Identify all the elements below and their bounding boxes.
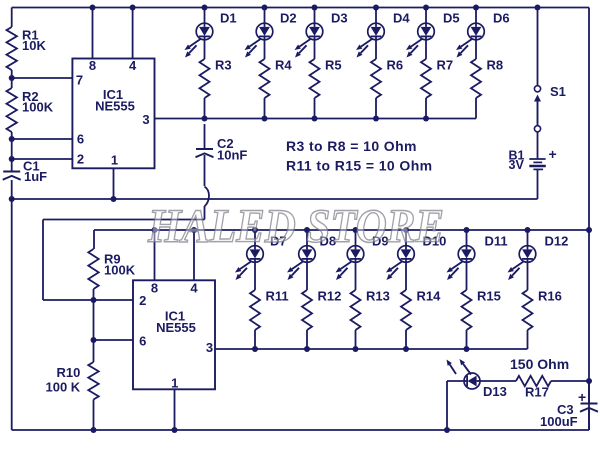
- pin 4 label bottom IC: [190, 281, 198, 296]
- label B1 value: [509, 149, 525, 172]
- svg-text:1: 1: [171, 376, 178, 391]
- resistor R2: [7, 88, 17, 132]
- label C2 value: [217, 136, 247, 163]
- node R12 on pin3 line: [304, 346, 310, 352]
- decorative watermark: [147, 200, 444, 253]
- node pin6 junction: [9, 136, 15, 142]
- wire pin7 line: [12, 77, 73, 79]
- label C1 value: [23, 159, 47, 185]
- label D4: [393, 11, 410, 26]
- wire top supply rail: [12, 7, 589, 9]
- pin 4 label top IC: [129, 58, 137, 73]
- label S1: [550, 84, 566, 99]
- node pin4 on supply rail: [130, 5, 136, 11]
- svg-text:3V: 3V: [509, 158, 525, 172]
- node R14 on pin3 line: [403, 346, 409, 352]
- svg-text:R8: R8: [487, 58, 504, 73]
- svg-text:4: 4: [129, 58, 137, 73]
- resistor R12: [302, 290, 312, 330]
- svg-text:R11: R11: [266, 289, 289, 304]
- LED D11: [447, 246, 475, 280]
- svg-text:D3: D3: [331, 11, 348, 26]
- op-amp U2 IC1 NE555 bottom box: [133, 280, 215, 389]
- wire R17 to right bus: [551, 380, 589, 382]
- resistor R8: [471, 59, 481, 98]
- wire R14 bottom lead: [405, 330, 407, 349]
- svg-text:R10: R10: [57, 365, 81, 380]
- svg-text:NE555: NE555: [156, 320, 196, 335]
- wire pin3 output line top: [155, 118, 477, 120]
- capacitor C3: [580, 381, 598, 430]
- svg-text:+: +: [549, 146, 557, 162]
- pin 1 label top IC: [111, 153, 118, 168]
- wire pin6 line bottom IC: [94, 339, 134, 341]
- svg-text:10nF: 10nF: [217, 148, 247, 163]
- label R3: [215, 58, 232, 73]
- node rail B right edge: [586, 227, 592, 233]
- LED D4: [356, 23, 384, 57]
- LED D8: [287, 246, 315, 280]
- LED D13: [447, 359, 481, 389]
- label R11: [266, 289, 289, 304]
- svg-text:D13: D13: [483, 384, 507, 399]
- resistor R9: [88, 249, 98, 289]
- battery B1: [529, 159, 546, 169]
- node pin1 on bottom rail: [172, 427, 178, 433]
- label R2 value: [22, 89, 54, 115]
- label R10 value: [46, 365, 81, 395]
- svg-text:R15: R15: [477, 289, 501, 304]
- label D10: [423, 234, 447, 249]
- wire pin2 line bottom IC: [43, 299, 133, 301]
- label C3 value: [540, 402, 578, 429]
- LED D2: [245, 23, 273, 57]
- svg-text:R17: R17: [525, 385, 549, 400]
- svg-text:100uF: 100uF: [540, 414, 578, 429]
- wire D9-R13 lead: [355, 262, 357, 290]
- wire pin2-pin6 link: [93, 300, 95, 340]
- node D3 top rail: [312, 5, 318, 11]
- wire D10 anode lead: [405, 230, 407, 246]
- svg-text:R3: R3: [215, 58, 232, 73]
- svg-text:1: 1: [111, 153, 118, 168]
- label R7: [437, 58, 454, 73]
- node R3 on output line: [202, 116, 208, 122]
- LED D10: [386, 246, 414, 280]
- label R8: [487, 58, 504, 73]
- pin 6 label bottom IC: [139, 334, 146, 349]
- label C3 plus: [578, 389, 586, 405]
- svg-text:NE555: NE555: [95, 99, 135, 114]
- label battery plus: [549, 146, 557, 162]
- svg-text:10K: 10K: [22, 38, 46, 53]
- node R9 pin2 junction: [91, 297, 97, 303]
- pin 6 label top IC: [77, 132, 84, 147]
- node D11 on rail B: [464, 227, 470, 233]
- wire R10 bottom lead: [93, 400, 95, 431]
- svg-text:2: 2: [77, 152, 84, 167]
- wire R15 bottom lead: [466, 330, 468, 349]
- label D9: [372, 234, 389, 249]
- node D12 on rail B: [525, 227, 531, 233]
- resistor R16: [523, 290, 533, 330]
- wire pin1 stub bottom IC: [174, 389, 176, 430]
- resistor R15: [462, 290, 472, 330]
- wire D2 anode lead: [264, 8, 266, 24]
- wire pin8 stub: [92, 8, 94, 59]
- node D13 on bottom rail: [444, 427, 450, 433]
- capacitor C1: [3, 172, 21, 180]
- wire D7 anode lead: [254, 230, 256, 246]
- switch S1: [534, 8, 541, 132]
- resistor R17: [516, 376, 551, 386]
- label IC1 top: [95, 87, 135, 114]
- node R11 on pin3 line: [252, 346, 258, 352]
- wire rail B (bottom supply rail): [94, 230, 589, 249]
- svg-text:R11 to R15 = 10 Ohm: R11 to R15 = 10 Ohm: [286, 158, 433, 174]
- svg-text:3: 3: [206, 340, 213, 355]
- svg-text:D4: D4: [393, 11, 410, 26]
- node R4 on output line: [262, 116, 268, 122]
- node D4 top rail: [373, 5, 379, 11]
- svg-text:3: 3: [142, 112, 149, 127]
- svg-text:D11: D11: [485, 234, 508, 249]
- svg-text:4: 4: [190, 281, 198, 296]
- label D2: [280, 11, 297, 26]
- pin 8 label top IC: [89, 58, 96, 73]
- wire pin1 stub top IC: [113, 168, 115, 199]
- LED D12: [508, 246, 536, 280]
- pin 8 label bottom IC: [151, 281, 158, 296]
- wire D13 ground lead: [447, 381, 464, 430]
- svg-text:D12: D12: [545, 234, 569, 249]
- LED D7: [235, 246, 263, 280]
- svg-text:R6: R6: [387, 58, 404, 73]
- label R17 value: [510, 356, 569, 400]
- node D7 on rail B: [252, 227, 258, 233]
- node R7 on output line: [423, 116, 429, 122]
- wire D13 to R17: [480, 380, 516, 382]
- node R15 on pin3 line: [464, 346, 470, 352]
- svg-text:100K: 100K: [104, 263, 136, 278]
- wire D12-R16 lead: [527, 262, 529, 290]
- label R14: [417, 289, 442, 304]
- pin 3 label top IC: [142, 112, 149, 127]
- svg-text:100 K: 100 K: [46, 380, 81, 395]
- svg-text:D1: D1: [220, 11, 237, 26]
- wire R12 bottom lead: [306, 330, 308, 349]
- wire pin3 output line bottom: [215, 330, 528, 349]
- pin 3 label bottom IC: [206, 340, 213, 355]
- label D5: [443, 11, 460, 26]
- node S1 on supply rail: [535, 5, 541, 11]
- svg-text:R5: R5: [325, 58, 342, 73]
- label D3: [331, 11, 348, 26]
- wire D3-R5 lead: [314, 40, 316, 59]
- LED D1: [185, 23, 213, 57]
- svg-text:R14: R14: [417, 289, 442, 304]
- label D12: [545, 234, 569, 249]
- node pin4 on rail B: [191, 227, 197, 233]
- svg-text:R3 to R8 = 10 Ohm: R3 to R8 = 10 Ohm: [286, 138, 417, 154]
- svg-text:7: 7: [76, 73, 83, 88]
- wire D7-R11 lead: [254, 262, 256, 290]
- wire C2 hop over ground rail: [205, 187, 210, 220]
- svg-text:R13: R13: [366, 289, 390, 304]
- svg-text:100K: 100K: [22, 100, 54, 115]
- wire R6 bottom lead: [375, 98, 377, 119]
- wire D4 anode lead: [375, 8, 377, 24]
- wire D11 anode lead: [466, 230, 468, 246]
- label R6: [387, 58, 404, 73]
- wire left edge (R1/R2/C1 branch): [11, 8, 13, 431]
- LED D3: [295, 23, 323, 57]
- node D10 on rail B: [403, 227, 409, 233]
- label R12: [318, 289, 342, 304]
- wire D1 anode lead: [204, 8, 206, 24]
- wire R13 bottom lead: [355, 330, 357, 349]
- node R17 C3 junction: [586, 378, 592, 384]
- svg-text:8: 8: [151, 281, 158, 296]
- node D6 top rail: [473, 5, 479, 11]
- label D8: [320, 234, 337, 249]
- wire R3 bottom lead: [204, 98, 206, 119]
- wire D6 anode lead: [475, 8, 477, 24]
- label R13: [366, 289, 390, 304]
- svg-text:2: 2: [139, 293, 146, 308]
- wire pin4 stub: [132, 8, 134, 59]
- capacitor C2: [196, 124, 214, 186]
- node D2 top rail: [262, 5, 268, 11]
- wire D2-R4 lead: [264, 40, 266, 59]
- label D11: [485, 234, 508, 249]
- LED D6: [456, 23, 484, 57]
- node pin2 junction: [9, 156, 15, 162]
- wire ground rail: [12, 198, 538, 200]
- op-amp U1 IC1 NE555 top box: [72, 59, 154, 169]
- svg-text:150 Ohm: 150 Ohm: [510, 356, 569, 372]
- node D1 top rail: [202, 5, 208, 11]
- wire pin8 stub bottom: [154, 230, 156, 280]
- wire bottom ground rail: [12, 429, 589, 431]
- node R5 on output line: [312, 116, 318, 122]
- pin 1 label bottom IC: [171, 376, 178, 391]
- node pin8 on rail B: [152, 227, 158, 233]
- svg-text:D5: D5: [443, 11, 460, 26]
- wire D5-R7 lead: [425, 40, 427, 59]
- pin 7 label top IC: [76, 73, 83, 88]
- resistor R10: [88, 362, 98, 400]
- wire S1 to battery: [537, 132, 539, 158]
- node pin1 on ground rail: [111, 196, 117, 202]
- resistor R13: [351, 290, 361, 330]
- svg-text:6: 6: [77, 132, 84, 147]
- svg-text:S1: S1: [550, 84, 566, 99]
- wire R4 bottom lead: [264, 98, 266, 119]
- svg-text:6: 6: [139, 334, 146, 349]
- pin 2 label bottom IC: [139, 293, 146, 308]
- label IC1 bottom: [156, 309, 196, 336]
- label D6: [493, 11, 510, 26]
- svg-text:D2: D2: [280, 11, 297, 26]
- wire pin2 line: [12, 158, 73, 160]
- svg-text:D6: D6: [493, 11, 510, 26]
- wire R9 bottom lead: [93, 289, 95, 300]
- node pin8 on supply rail: [90, 5, 96, 11]
- wire pin6 line: [12, 138, 73, 140]
- wire R10 top lead: [93, 340, 95, 362]
- wire D4-R6 lead: [375, 40, 377, 59]
- wire D5 anode lead: [425, 8, 427, 24]
- label R16: [538, 289, 562, 304]
- svg-text:R16: R16: [538, 289, 562, 304]
- wire D8 anode lead: [306, 230, 308, 246]
- wire pin4 stub bottom: [193, 230, 195, 280]
- wire battery negative to ground rail: [537, 170, 539, 199]
- node R6 on output line: [373, 116, 379, 122]
- wire D1-R3 lead: [204, 40, 206, 59]
- wire rail A (C2 coupling to pin2): [43, 220, 205, 301]
- label note R11-R15: [286, 158, 433, 174]
- svg-text:1uF: 1uF: [24, 169, 47, 184]
- svg-text:8: 8: [89, 58, 96, 73]
- wire right edge (battery + bus): [588, 8, 590, 431]
- label D7: [270, 234, 287, 249]
- node D8 on rail B: [304, 227, 310, 233]
- node pin7 junction: [9, 75, 15, 81]
- node D9 on rail B: [353, 227, 359, 233]
- label R15: [477, 289, 501, 304]
- label R4: [275, 58, 292, 73]
- wire D9 anode lead: [355, 230, 357, 246]
- svg-text:R12: R12: [318, 289, 342, 304]
- resistor R3: [200, 59, 210, 98]
- node pin6 junction bottom: [91, 337, 97, 343]
- svg-text:R4: R4: [275, 58, 292, 73]
- resistor R6: [371, 59, 381, 98]
- node D5 top rail: [423, 5, 429, 11]
- wire D6-R8 lead: [475, 40, 477, 59]
- LED D5: [406, 23, 434, 57]
- wire D12 anode lead: [527, 230, 529, 246]
- node R13 on pin3 line: [353, 346, 359, 352]
- svg-text:+: +: [578, 389, 586, 405]
- node R10 on bottom rail: [91, 427, 97, 433]
- label R5: [325, 58, 342, 73]
- wire D11-R15 lead: [466, 262, 468, 290]
- label note R3-R8: [286, 138, 417, 154]
- node C1 ground junction: [9, 196, 15, 202]
- wire R7 bottom lead: [425, 98, 427, 119]
- wire R5 bottom lead: [314, 98, 316, 119]
- resistor R7: [421, 59, 431, 98]
- label R9 value: [104, 252, 136, 278]
- wire D3 anode lead: [314, 8, 316, 24]
- label D1: [220, 11, 237, 26]
- resistor R4: [260, 59, 270, 98]
- label R1 value: [22, 28, 46, 54]
- wire D8-R12 lead: [306, 262, 308, 290]
- resistor R5: [310, 59, 320, 98]
- svg-text:R7: R7: [437, 58, 454, 73]
- resistor R14: [401, 290, 411, 330]
- resistor R11: [250, 290, 260, 330]
- resistor R1: [7, 27, 17, 70]
- wire R11 bottom lead: [254, 330, 256, 349]
- label D13: [483, 384, 507, 399]
- svg-text:HALED STORE: HALED STORE: [147, 200, 444, 253]
- wire D10-R14 lead: [405, 262, 407, 290]
- pin 2 label top IC: [77, 152, 84, 167]
- wire R8 bottom lead: [475, 98, 477, 119]
- LED D9: [336, 246, 364, 280]
